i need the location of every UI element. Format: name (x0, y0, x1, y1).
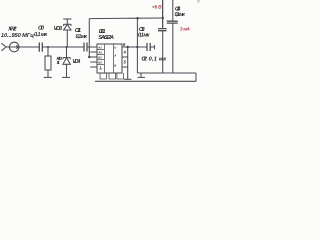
svg-text:A2: A2 (97, 50, 102, 54)
svg-text:0,1 мк: 0,1 мк (76, 34, 89, 40)
svg-text:51: 51 (57, 60, 61, 65)
svg-text:A1: A1 (97, 45, 102, 49)
svg-text:A: A (113, 53, 116, 57)
svg-text:0,1 мк: 0,1 мк (175, 12, 187, 18)
svg-text:0,1 мк: 0,1 мк (138, 32, 151, 38)
svg-text:C12: C12 (141, 56, 147, 62)
svg-text:VD3: VD3 (54, 26, 63, 32)
svg-text:C10: C10 (38, 26, 45, 32)
svg-text:B: B (114, 63, 116, 67)
svg-text:VD4: VD4 (72, 59, 81, 65)
svg-text:C11: C11 (75, 28, 81, 34)
svg-text:XW2: XW2 (7, 26, 17, 32)
svg-text:0,1 мк: 0,1 мк (149, 56, 168, 62)
svg-text:B1: B1 (98, 55, 102, 59)
svg-text:3 мА: 3 мА (180, 27, 191, 33)
svg-text:SA612A: SA612A (98, 35, 114, 41)
svg-text:+6 В: +6 В (152, 5, 162, 11)
svg-text:10...950 МГц: 10...950 МГц (1, 33, 34, 39)
svg-text:B2: B2 (98, 60, 102, 64)
svg-text:0,1 мк: 0,1 мк (34, 32, 48, 38)
